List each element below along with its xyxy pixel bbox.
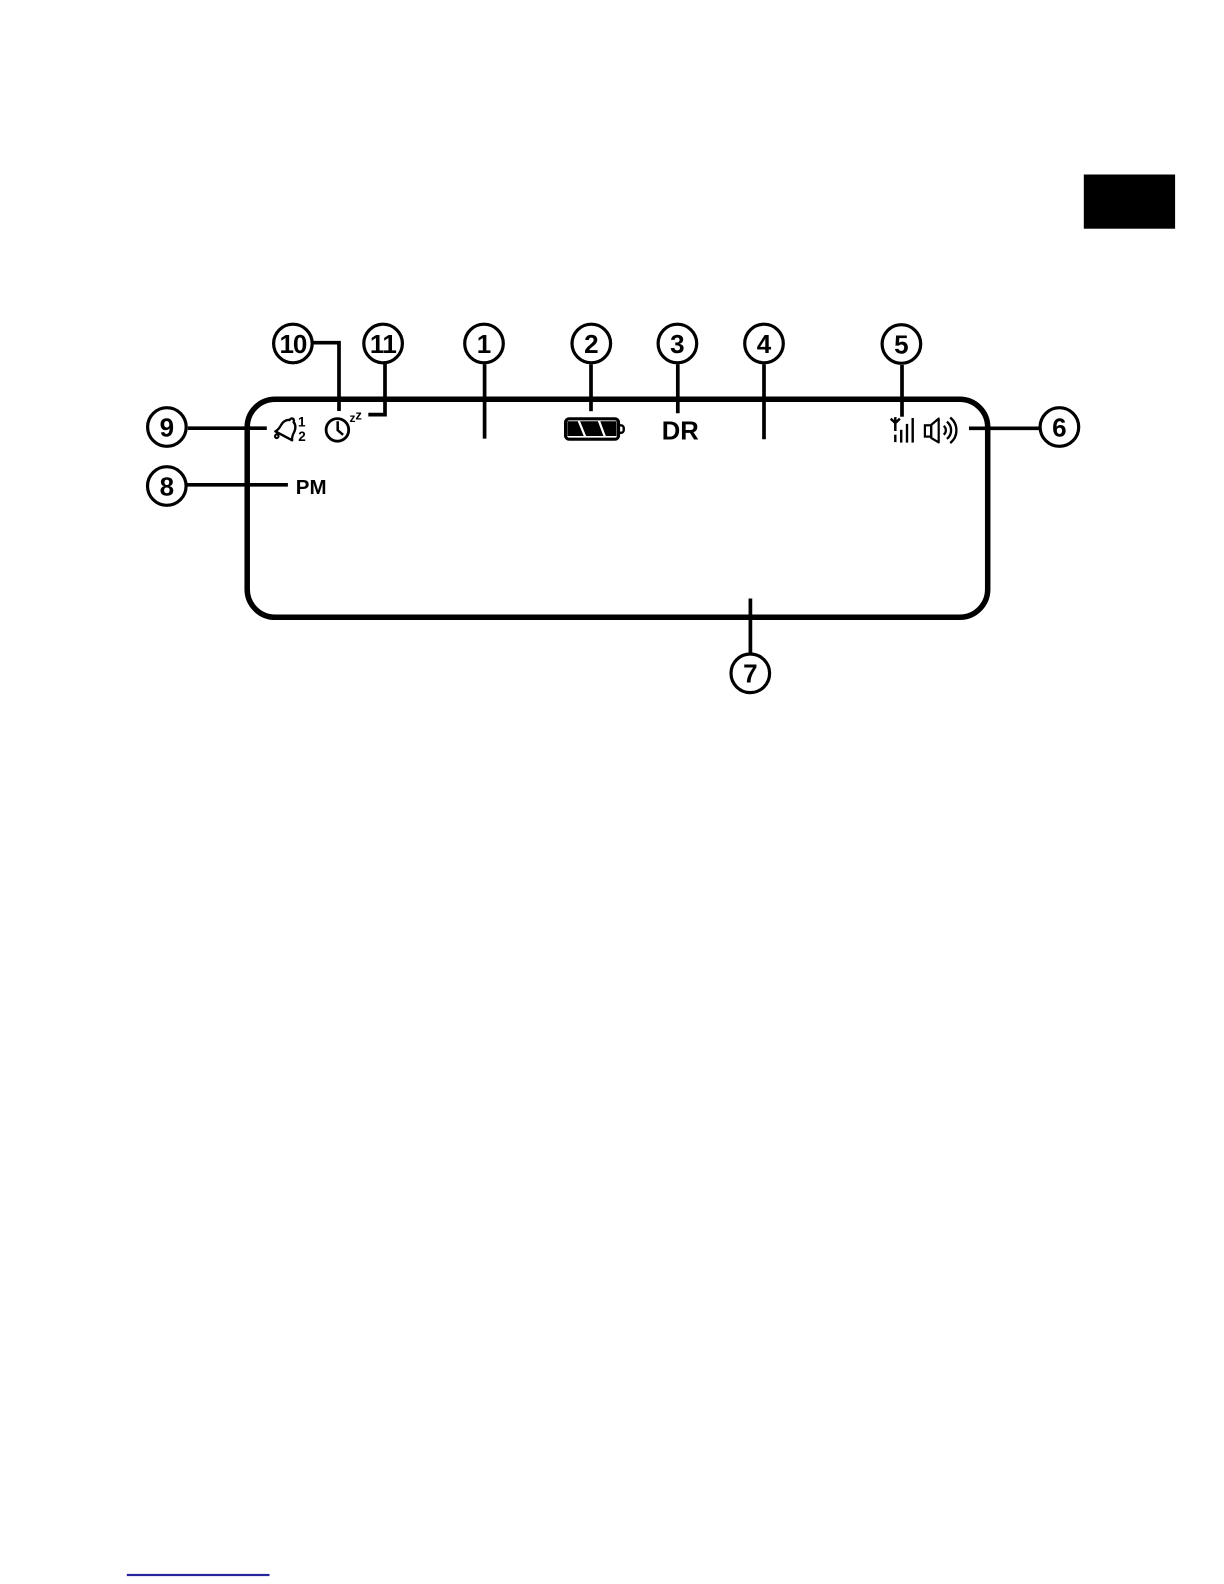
speaker icon	[925, 418, 957, 444]
leader line 4	[762, 364, 766, 439]
signal strength icon	[891, 417, 913, 443]
svg-text:11: 11	[370, 329, 397, 359]
alarm bell icon	[273, 414, 302, 445]
leader line 11	[368, 364, 387, 417]
leader line 5	[900, 365, 904, 417]
svg-text:z: z	[355, 408, 362, 423]
footer rule	[127, 1574, 270, 1576]
battery icon	[566, 419, 624, 439]
callout circle 1	[465, 324, 504, 363]
black page-index tab	[1084, 175, 1175, 229]
callout circle 6	[1040, 408, 1079, 447]
leader line 7	[749, 599, 753, 655]
svg-text:10: 10	[279, 329, 306, 359]
leader line 1	[483, 364, 487, 438]
svg-text:7: 7	[743, 659, 757, 689]
callout circle 9	[148, 408, 187, 447]
svg-text:5: 5	[894, 329, 908, 359]
display outline	[247, 399, 988, 617]
leader line 9	[188, 426, 267, 430]
leader line 3	[676, 364, 680, 413]
callout circle 7	[731, 654, 770, 693]
svg-text:9: 9	[160, 412, 174, 442]
svg-text:1: 1	[298, 415, 306, 430]
callout circle 11	[364, 324, 403, 363]
svg-text:8: 8	[160, 471, 174, 501]
callout circle 10	[274, 324, 313, 363]
svg-text:DR: DR	[662, 417, 699, 445]
leader line 6	[969, 426, 1041, 430]
callout circle 4	[745, 324, 784, 363]
sleep clock icon	[326, 419, 349, 442]
callout circle 5	[882, 325, 921, 364]
svg-text:3: 3	[670, 329, 684, 359]
svg-text:1: 1	[477, 329, 491, 359]
svg-text:4: 4	[757, 329, 772, 359]
leader line 8	[187, 483, 288, 487]
svg-text:2: 2	[298, 429, 306, 444]
leader line 10	[312, 343, 339, 411]
leader line 2	[589, 364, 593, 411]
svg-text:2: 2	[584, 329, 598, 359]
svg-text:PM: PM	[296, 476, 327, 499]
callout circle 3	[658, 324, 697, 363]
callout circle 2	[572, 324, 611, 363]
callout circle 8	[148, 467, 187, 506]
svg-text:6: 6	[1052, 412, 1066, 442]
